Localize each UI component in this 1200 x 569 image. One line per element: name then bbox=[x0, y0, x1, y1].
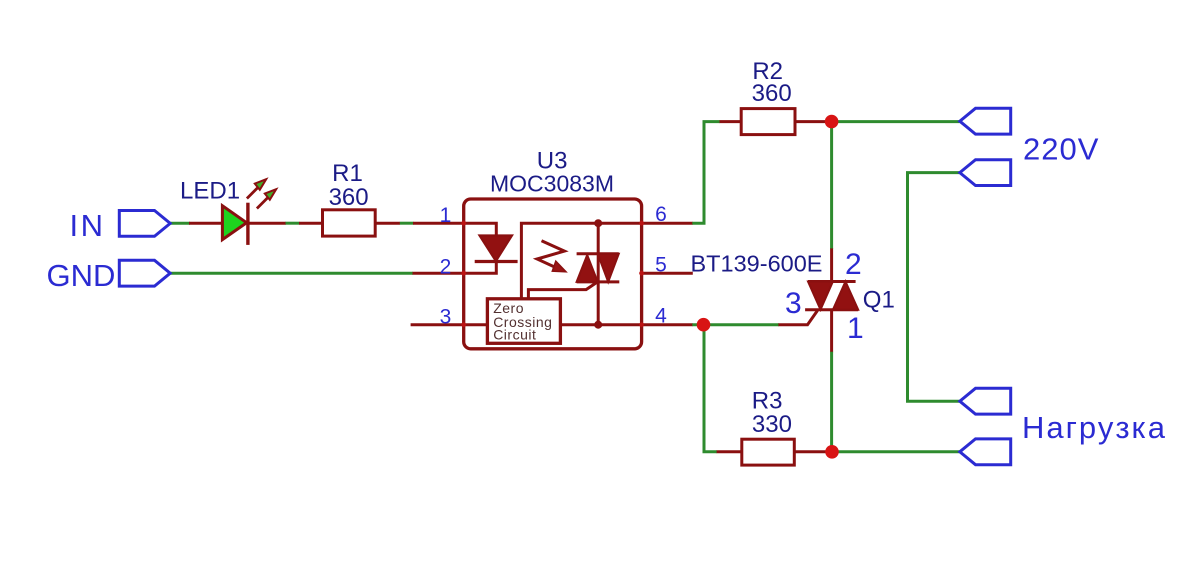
wire R1 left pin (dark red) bbox=[299, 222, 323, 225]
U3 internal bottom rail (pin3 to pin4 through ZC) bbox=[464, 323, 489, 326]
U3 internal LED diode bbox=[480, 236, 512, 261]
U3 pin connection dot pin4 bbox=[639, 322, 644, 327]
wire Q1 top lead (dark red) bbox=[830, 248, 833, 281]
wire R3 right pin (dark red) bbox=[794, 450, 832, 453]
wire U3 pin6 lead (dark red) bbox=[642, 222, 693, 225]
U3 pin connection dot pin6 bbox=[639, 221, 644, 226]
wire 220V-2 terminal to load terminal (green, down left side) bbox=[908, 173, 960, 402]
U3 internal junction dot bottom bbox=[594, 321, 602, 329]
wire IN to LED (green segment) bbox=[170, 222, 190, 225]
U3 pin connection dot pin5 bbox=[639, 271, 644, 276]
LED1 emission arrow lower bbox=[257, 189, 276, 208]
U3 internal triac left triangle bbox=[577, 255, 598, 282]
wire R3 junction to load terminal (green) bbox=[832, 450, 960, 453]
triac Q1 top bar bbox=[808, 280, 856, 283]
wire U3 pin5 stub (dark red) bbox=[642, 272, 693, 275]
triac Q1 left triangle bbox=[808, 282, 833, 310]
svg-text:3: 3 bbox=[785, 287, 802, 320]
svg-text:6: 6 bbox=[655, 203, 667, 226]
svg-text:1: 1 bbox=[440, 204, 452, 227]
terminal load 2 bbox=[960, 439, 1011, 465]
wire R3 left pin (dark red) bbox=[717, 450, 742, 453]
U3 pin connection dot pin2 bbox=[461, 271, 466, 276]
svg-text:4: 4 bbox=[655, 305, 667, 328]
svg-text:2: 2 bbox=[845, 248, 862, 281]
wire pin4 to junction and gate (green) bbox=[692, 323, 779, 326]
resistor R2 bbox=[741, 109, 795, 135]
wire R1 right pin (dark red) bbox=[375, 222, 400, 225]
wire pin4 junction down to R3 (green) bbox=[704, 325, 717, 452]
U3 internal triac top bar bbox=[577, 252, 619, 255]
junction dot at pin4 bbox=[697, 318, 711, 332]
resistor R3 bbox=[742, 439, 795, 465]
wire R1 to U3 pin1 (green segment) bbox=[400, 222, 414, 225]
U3 internal cathode to pin2 link bbox=[464, 262, 497, 274]
svg-text:5: 5 bbox=[655, 254, 667, 277]
triac Q1 bottom bar bbox=[805, 308, 858, 311]
svg-text:GND: GND bbox=[47, 258, 116, 293]
wire LED anode pin (dark red) bbox=[189, 222, 223, 225]
junction dot at R3 output bbox=[825, 445, 839, 459]
svg-text:220V: 220V bbox=[1023, 132, 1099, 167]
LED1 diode bbox=[222, 206, 246, 240]
U3 zero crossing circuit box bbox=[487, 299, 560, 344]
U3 internal triac right triangle bbox=[598, 254, 619, 282]
svg-text:Q1: Q1 bbox=[863, 286, 895, 313]
wire R2 junction down to Q1 top (green) bbox=[830, 122, 833, 249]
wire GND to U3 pin2 (green) bbox=[170, 272, 413, 275]
U3 internal triac vertical bbox=[597, 223, 600, 325]
svg-text:MOC3083M: MOC3083M bbox=[490, 171, 614, 197]
wire U3 pin2 lead (dark red) bbox=[413, 272, 464, 275]
svg-text:360: 360 bbox=[752, 80, 792, 107]
svg-text:360: 360 bbox=[329, 184, 369, 211]
svg-text:LED1: LED1 bbox=[180, 178, 240, 205]
LED1 emission arrow upper bbox=[247, 179, 266, 198]
resistor R1 bbox=[323, 210, 376, 236]
wire Q1 gate lead (dark red) bbox=[778, 311, 817, 325]
svg-text:2: 2 bbox=[440, 256, 452, 279]
U3 pin connection dot pin3 bbox=[461, 322, 466, 327]
U3 internal LED cathode bar bbox=[475, 260, 518, 263]
U3 internal triac bottom bar bbox=[577, 280, 620, 283]
wire Q1 bottom to R3 junction (green) bbox=[830, 352, 833, 452]
wire Q1 bottom lead (dark red) bbox=[830, 310, 833, 353]
triac Q1 right triangle bbox=[833, 282, 858, 310]
U3 internal junction dot top bbox=[594, 219, 602, 227]
terminal 220V neutral bbox=[960, 160, 1011, 186]
svg-text:Circuit: Circuit bbox=[493, 327, 536, 343]
wire pin6 to R2 (green, up and right) bbox=[692, 122, 720, 224]
svg-text:IN: IN bbox=[70, 208, 106, 243]
U3 internal gate link to ZC box bbox=[528, 282, 597, 299]
wire LED cathode pin (dark red) bbox=[248, 222, 286, 225]
svg-text:1: 1 bbox=[847, 312, 864, 345]
terminal 220V line bbox=[960, 108, 1011, 134]
wire R2 left pin (dark red) bbox=[720, 120, 742, 123]
wire U3 pin3 stub (dark red) bbox=[411, 323, 464, 326]
wire LED to R1 (green segment) bbox=[286, 222, 300, 225]
wire U3 pin4 lead (dark red) bbox=[642, 323, 693, 326]
U3 internal pin1 link bbox=[464, 223, 497, 236]
LED1 cathode bar bbox=[246, 203, 249, 245]
optocoupler U3 body box bbox=[464, 199, 642, 349]
U3 internal top rail from ZC box bbox=[521, 223, 641, 299]
svg-text:3: 3 bbox=[440, 306, 452, 329]
U3 internal light arrow (zigzag) bbox=[537, 241, 564, 270]
wire U3 pin1 lead (dark red) bbox=[413, 222, 464, 225]
svg-text:Нагрузка: Нагрузка bbox=[1022, 410, 1167, 445]
terminal GND bbox=[119, 260, 170, 286]
wire R2 right pin (dark red) bbox=[795, 120, 832, 123]
wire R2 junction to 220V terminal (green) bbox=[832, 120, 960, 123]
terminal load 1 bbox=[960, 388, 1011, 414]
junction dot at R2 output bbox=[825, 115, 839, 129]
terminal IN bbox=[119, 211, 170, 237]
svg-text:BT139-600E: BT139-600E bbox=[691, 251, 823, 277]
U3 pin connection dot pin1 bbox=[461, 221, 466, 226]
svg-text:330: 330 bbox=[752, 411, 792, 438]
